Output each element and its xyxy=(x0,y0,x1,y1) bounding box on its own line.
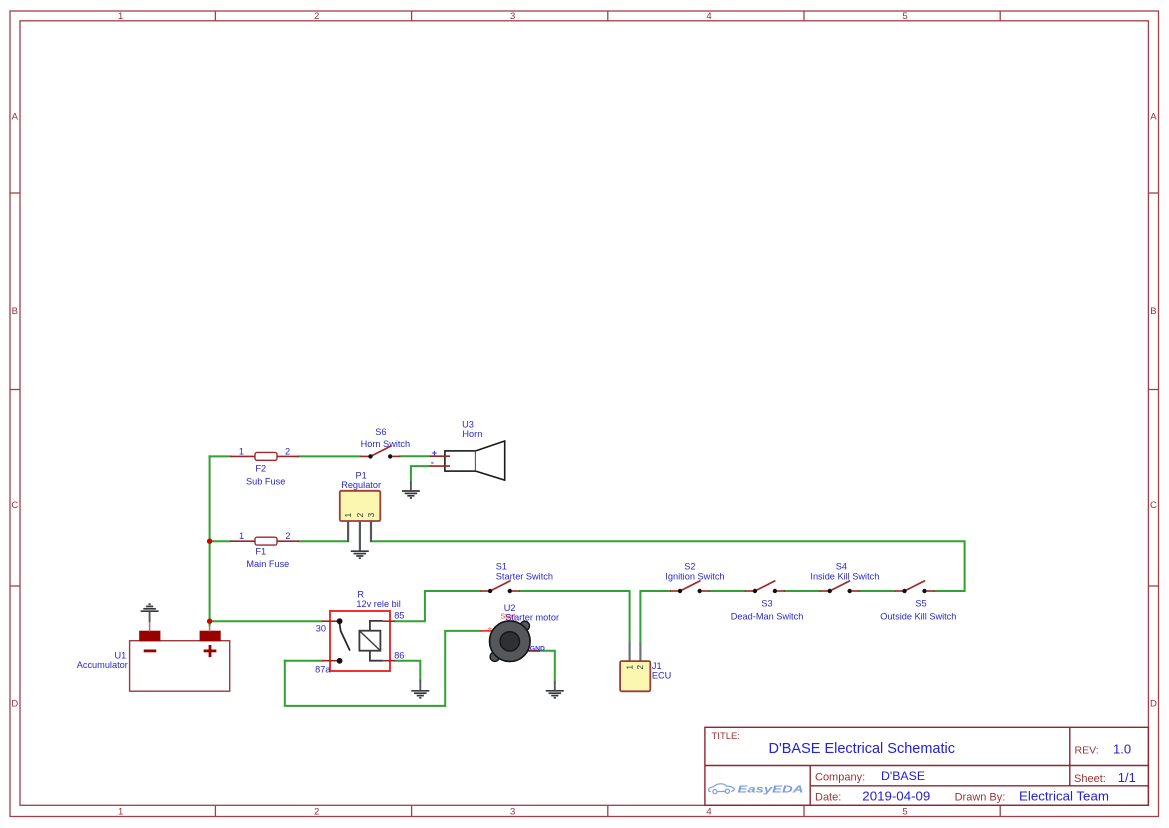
svg-text:3: 3 xyxy=(510,806,515,817)
wire relay pin85 to S1 xyxy=(395,591,480,621)
svg-text:Date:: Date: xyxy=(815,792,841,804)
svg-text:S4: S4 xyxy=(836,561,847,571)
svg-text:D: D xyxy=(1150,699,1157,710)
svg-text:12v rele bil: 12v rele bil xyxy=(356,599,400,609)
svg-text:D'BASE Electrical Schematic: D'BASE Electrical Schematic xyxy=(769,741,956,757)
wire regulator pin3 to kill-switch chain xyxy=(371,541,965,591)
starter motor U2 xyxy=(480,621,540,662)
switch S4 xyxy=(820,581,860,594)
svg-text:S5: S5 xyxy=(915,598,926,608)
switch S1 xyxy=(480,581,520,594)
battery plus pin xyxy=(209,625,211,631)
svg-text:1.0: 1.0 xyxy=(1113,742,1131,757)
battery minus pin xyxy=(149,622,151,631)
svg-text:1/1: 1/1 xyxy=(1118,770,1136,785)
junction F1 node xyxy=(207,539,212,544)
svg-text:Starter Switch: Starter Switch xyxy=(496,572,553,582)
svg-text:GND: GND xyxy=(530,646,545,653)
wire S6 to horn plus xyxy=(400,455,430,457)
svg-text:4: 4 xyxy=(706,806,711,817)
svg-text:Horn: Horn xyxy=(462,429,482,439)
svg-text:3: 3 xyxy=(366,512,376,517)
wire relay pin87a left xyxy=(285,660,322,662)
wire motor gnd pin to ground xyxy=(540,651,555,682)
switch S2 xyxy=(670,581,710,594)
svg-text:F1: F1 xyxy=(255,547,266,557)
svg-text:87a: 87a xyxy=(315,664,331,674)
ground at motor xyxy=(546,681,564,698)
svg-text:D: D xyxy=(11,699,18,710)
svg-text:5: 5 xyxy=(902,806,907,817)
svg-text:1: 1 xyxy=(343,512,353,517)
svg-text:A: A xyxy=(12,112,19,123)
svg-text:Regulator: Regulator xyxy=(341,480,381,490)
svg-text:Sub Fuse: Sub Fuse xyxy=(246,477,285,487)
wire S3 to S4 xyxy=(785,590,820,592)
svg-text:2: 2 xyxy=(355,512,365,517)
svg-text:86: 86 xyxy=(394,650,404,660)
relay R xyxy=(322,611,395,671)
wire relay pin86 to ground xyxy=(395,661,420,680)
svg-text:B: B xyxy=(12,306,18,317)
svg-text:S3: S3 xyxy=(761,598,772,608)
wire S2 to S3 xyxy=(710,590,745,592)
wire S1 to ECU pin1 xyxy=(520,591,630,642)
svg-text:A: A xyxy=(1150,112,1157,123)
svg-text:Main Fuse: Main Fuse xyxy=(246,559,289,569)
svg-text:2: 2 xyxy=(635,665,645,670)
EasyEDA logo xyxy=(708,784,734,794)
svg-text:-: - xyxy=(431,458,434,468)
svg-text:Horn Switch: Horn Switch xyxy=(361,439,411,449)
svg-text:85: 85 xyxy=(394,611,404,621)
svg-text:1: 1 xyxy=(118,806,123,817)
ground at regulator pin2 xyxy=(351,551,369,558)
fuse F2 xyxy=(230,452,299,460)
ground at battery minus (points up) xyxy=(141,604,159,622)
wire F1 pin2 to regulator pin1 xyxy=(299,540,348,542)
wire F2 to battery junction vertical xyxy=(209,456,211,625)
svg-text:REV:: REV: xyxy=(1075,745,1099,757)
svg-text:1: 1 xyxy=(118,11,123,22)
svg-text:Drawn By:: Drawn By: xyxy=(955,792,1006,804)
svg-text:+: + xyxy=(488,624,493,633)
svg-text:R: R xyxy=(357,589,364,599)
svg-text:2: 2 xyxy=(285,531,290,541)
wire F1 junction to F1 pin1 xyxy=(210,540,230,542)
fuse F1 xyxy=(230,537,299,545)
svg-text:TITLE:: TITLE: xyxy=(712,731,741,742)
svg-text:EasyEDA: EasyEDA xyxy=(738,784,804,796)
ground at relay pin86 xyxy=(411,680,429,698)
svg-text:2: 2 xyxy=(314,806,319,817)
junction battery-plus node xyxy=(207,619,212,624)
svg-text:U2: U2 xyxy=(504,603,516,613)
wire 87a loop to starter motor plus xyxy=(285,631,481,706)
horn U3 xyxy=(430,441,505,480)
svg-text:5: 5 xyxy=(902,11,907,22)
wire battery plus to relay pin30 xyxy=(210,620,322,622)
wire ECU pin2 to S2 xyxy=(640,591,670,642)
svg-text:C: C xyxy=(11,500,18,511)
svg-text:2: 2 xyxy=(314,11,319,22)
svg-text:Inside Kill Switch: Inside Kill Switch xyxy=(810,572,879,582)
svg-text:ECU: ECU xyxy=(652,670,671,680)
svg-text:Accumulator: Accumulator xyxy=(77,660,128,670)
switch S3 xyxy=(745,581,785,594)
svg-text:B: B xyxy=(1150,306,1156,317)
svg-text:S1: S1 xyxy=(496,561,507,571)
svg-text:Dead-Man Switch: Dead-Man Switch xyxy=(731,612,804,622)
svg-text:S2: S2 xyxy=(684,561,695,571)
svg-text:Sheet:: Sheet: xyxy=(1074,773,1106,785)
switch S6 xyxy=(361,446,401,459)
svg-text:D'BASE: D'BASE xyxy=(881,769,925,783)
wire F2 pin2 to S6 xyxy=(299,455,361,457)
svg-text:2: 2 xyxy=(285,446,290,456)
wire horn minus to ground xyxy=(411,466,430,481)
TITLE BLOCK xyxy=(705,727,1149,805)
battery U1 xyxy=(130,622,230,691)
svg-text:Company:: Company: xyxy=(815,771,865,783)
svg-text:1: 1 xyxy=(239,531,244,541)
svg-text:3: 3 xyxy=(510,11,515,22)
svg-text:S6: S6 xyxy=(375,427,386,437)
svg-text:1: 1 xyxy=(239,446,244,456)
ECU J1 xyxy=(620,642,650,691)
wire S4 to S5 xyxy=(860,590,895,592)
wire corner to F2 pin1 xyxy=(210,455,230,457)
svg-text:C: C xyxy=(1150,500,1157,511)
svg-text:Ignition Switch: Ignition Switch xyxy=(665,572,724,582)
ground at horn xyxy=(402,481,420,498)
svg-text:1: 1 xyxy=(624,665,634,670)
svg-text:Starter motor: Starter motor xyxy=(505,613,559,623)
switch S5 xyxy=(895,581,935,594)
svg-text:Outside Kill Switch: Outside Kill Switch xyxy=(880,612,956,622)
svg-text:Electrical Team: Electrical Team xyxy=(1019,789,1109,804)
svg-text:F2: F2 xyxy=(255,464,266,474)
svg-text:4: 4 xyxy=(706,11,711,22)
svg-text:30: 30 xyxy=(316,623,326,633)
svg-text:2019-04-09: 2019-04-09 xyxy=(862,789,930,804)
regulator P1 xyxy=(340,491,381,551)
